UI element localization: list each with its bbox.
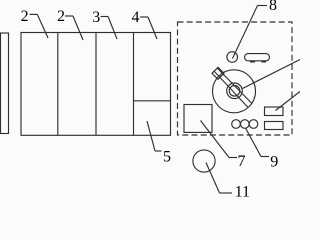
leader to cropped right label (box pair) — [276, 92, 301, 111]
svg-text:3: 3 — [92, 9, 100, 26]
svg-text:5: 5 — [163, 148, 171, 165]
svg-text:7: 7 — [238, 153, 246, 170]
svg-text:4: 4 — [132, 9, 140, 26]
svg-text:2: 2 — [57, 8, 65, 25]
tank block (boxes 2/2/3/4) — [21, 33, 171, 136]
label 2a — [30, 13, 38, 15]
wire divider col3/col4 — [133, 33, 135, 136]
label 4 — [140, 16, 148, 18]
label 5 — [147, 121, 155, 151]
fan hub outer — [227, 83, 243, 99]
svg-text:9: 9 — [270, 154, 278, 171]
label 3 — [101, 16, 109, 18]
box pair lower — [265, 122, 284, 130]
fan hub inner — [229, 86, 240, 97]
fan circle — [213, 70, 256, 113]
wire divider col1/col2 — [57, 33, 59, 136]
dashed enclosure — [178, 22, 293, 135]
tray — [245, 54, 270, 61]
svg-text:2: 2 — [21, 8, 29, 25]
label 2b — [65, 15, 73, 17]
label 9 — [246, 128, 262, 157]
box 7 — [184, 105, 212, 133]
label 7 — [201, 121, 230, 158]
svg-text:11: 11 — [235, 184, 250, 200]
wire divider col2/col3 — [95, 33, 97, 136]
tank 1 (left partial box) — [1, 33, 9, 134]
pump circles 9 — [232, 120, 241, 129]
svg-text:8: 8 — [269, 0, 277, 14]
fan inlet diamond — [212, 67, 224, 79]
wire divider box 5 — [134, 100, 171, 102]
box pair upper — [265, 107, 284, 116]
leader to cropped right label (fan) — [243, 60, 301, 89]
motor circle 8 — [227, 52, 238, 63]
label 11 — [206, 163, 220, 194]
circle 11 — [193, 150, 215, 172]
fan blade — [215, 72, 249, 108]
label 8 — [258, 5, 268, 7]
